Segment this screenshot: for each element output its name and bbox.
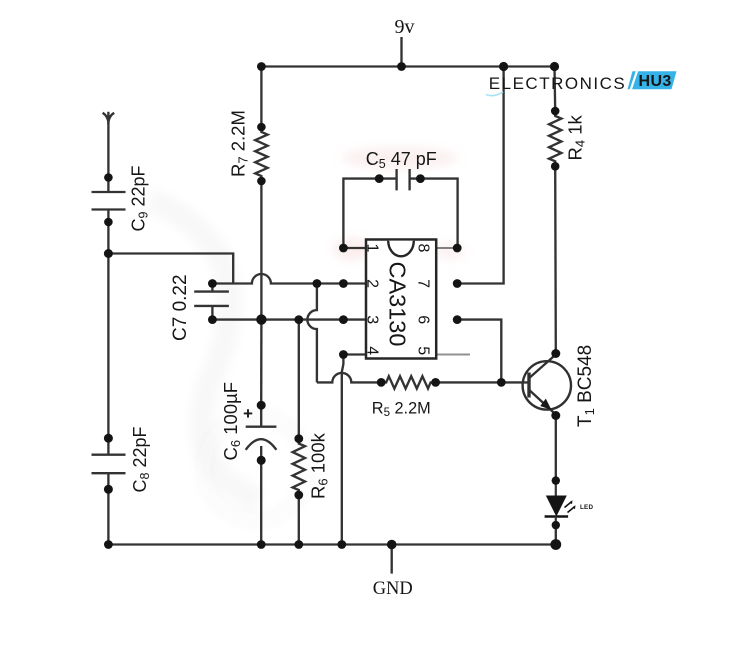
wire R6 branch from pin3 line	[298, 320, 300, 439]
label C6 plus	[244, 409, 252, 417]
wire left column junction A to C8	[107, 254, 109, 439]
capacitor C7	[194, 284, 229, 320]
node rail-GND	[387, 540, 397, 550]
wire pin1 stub	[343, 247, 365, 249]
svg-text:C6 100µF: C6 100µF	[220, 382, 243, 461]
transistor Q1 BC548	[523, 355, 571, 415]
svg-text:R7 2.2M: R7 2.2M	[228, 110, 251, 177]
svg-text:R6 100k: R6 100k	[308, 432, 331, 499]
wire transistor emitter to LED	[555, 416, 557, 481]
svg-text:C8 22pF: C8 22pF	[130, 427, 152, 493]
wire ground rail	[108, 543, 555, 545]
wire 9v stub	[400, 37, 402, 67]
pin8 gray stub	[437, 247, 458, 249]
node pin3-R6	[294, 315, 303, 324]
svg-text:HU3: HU3	[639, 73, 672, 90]
node rail-R7	[257, 62, 266, 71]
wire C9 to junction A	[107, 222, 109, 254]
node C7 top	[208, 279, 217, 288]
node pin2 feedback	[313, 279, 322, 288]
svg-text:4: 4	[364, 346, 381, 355]
svg-text:LED: LED	[580, 504, 593, 511]
node R4 top	[551, 107, 560, 116]
node collector	[551, 349, 560, 358]
node C8 bottom	[104, 485, 113, 494]
svg-text:2: 2	[364, 279, 381, 288]
svg-text:C5 47 pF: C5 47 pF	[366, 149, 437, 171]
node C8 top	[104, 434, 113, 443]
capacitor C8	[92, 438, 126, 489]
svg-text:C9 22pF: C9 22pF	[129, 166, 151, 232]
svg-text:ELECTRONICS: ELECTRONICS	[489, 74, 626, 93]
svg-text:C7 0.22: C7 0.22	[170, 274, 191, 341]
wire antenna to C9	[107, 120, 109, 178]
wire feedback branch pin2 with hop over pin3 line	[307, 284, 317, 383]
pin5 gray stub	[437, 354, 471, 356]
node rail-R4	[550, 62, 559, 71]
svg-text:5: 5	[415, 346, 432, 355]
node pin4	[339, 350, 348, 359]
node rail right end	[550, 539, 561, 550]
wire LED to rail end	[555, 525, 557, 544]
node rail-pin4	[337, 540, 346, 549]
node rail-R6	[294, 540, 303, 549]
svg-text:8: 8	[415, 244, 432, 253]
antenna	[103, 112, 115, 124]
wire feedback branch to R5 with hop over pin4 branch	[317, 373, 381, 383]
node pin2	[339, 279, 348, 288]
node LED top	[552, 476, 560, 484]
wire R6 to ground rail	[298, 495, 300, 545]
node R7 top	[257, 123, 266, 132]
node pin3	[339, 315, 348, 324]
wire C6 to ground rail	[260, 460, 262, 544]
node C5 left	[375, 174, 384, 183]
resistor R7	[255, 127, 267, 181]
wire C5 left leg to pin1	[343, 179, 379, 248]
wire top rail 9v	[261, 65, 554, 67]
wire junction A to pin2 line	[108, 254, 233, 284]
node R7 bottom	[257, 177, 266, 186]
node R4 bottom	[551, 162, 560, 171]
node pin6	[453, 315, 462, 324]
node C9 bottom	[104, 218, 113, 227]
node R6 bottom	[294, 491, 303, 500]
svg-text:9v: 9v	[395, 16, 415, 38]
transistor emitter arrow	[540, 399, 551, 410]
wire R5 to transistor base	[436, 381, 528, 383]
node C6 bottom	[257, 456, 266, 465]
node pin8	[453, 244, 462, 253]
wire pin7 to top rail	[457, 67, 503, 284]
node emitter	[551, 411, 560, 420]
svg-text:CA3130: CA3130	[385, 262, 411, 347]
node rail left	[104, 540, 113, 549]
node LED bottom	[552, 521, 560, 529]
wire pin3 node down to C6	[260, 320, 263, 406]
node rail-C6	[257, 540, 266, 549]
node R6 top	[294, 434, 303, 443]
svg-text:1: 1	[364, 244, 381, 253]
node pin3-R7-C6	[256, 314, 266, 324]
resistor R4	[549, 111, 561, 166]
wire rail to R4	[553, 67, 556, 112]
node R5 left	[377, 378, 386, 387]
wire pin3 line	[212, 318, 365, 320]
op-amp U1 CA3130 body	[366, 240, 436, 359]
svg-text:R4 1k: R4 1k	[565, 114, 588, 160]
wire pin6 to base node	[457, 320, 501, 383]
capacitor C6 plates	[246, 405, 277, 460]
node pin1	[339, 244, 348, 253]
watermark smudges (decor)	[150, 147, 465, 520]
wire pin4 stub	[343, 353, 365, 355]
logo Electronics Hub	[486, 70, 677, 96]
node C7 bottom	[208, 315, 217, 324]
wire C5 right leg to pin8	[420, 179, 457, 248]
node A junction	[104, 249, 113, 258]
svg-text:6: 6	[415, 315, 432, 324]
resistor R5	[381, 376, 435, 388]
node base-pin6	[497, 378, 506, 387]
node rail-9v	[397, 62, 406, 71]
wire GND stub	[391, 545, 393, 574]
node C6 top	[257, 401, 266, 410]
svg-text:R5 2.2M: R5 2.2M	[372, 399, 431, 419]
svg-text:3: 3	[364, 315, 381, 324]
node antenna-C9	[104, 173, 113, 182]
node pin7	[453, 279, 462, 288]
wire R4 to transistor collector	[554, 166, 557, 353]
node rail-pin7	[499, 62, 508, 71]
svg-text:GND: GND	[373, 579, 413, 599]
wire pin2 line with hop over R7 branch	[212, 274, 365, 284]
capacitor C5	[379, 169, 420, 190]
wire C8 to ground rail	[107, 489, 109, 544]
wire R7 bottom to pin3 node	[260, 181, 262, 320]
svg-text:7: 7	[415, 279, 432, 288]
resistor R6	[293, 439, 305, 495]
LED D1	[545, 481, 576, 525]
node C5 right	[416, 174, 425, 183]
wire pin4 branch to ground rail	[342, 355, 344, 545]
capacitor C9	[92, 178, 126, 223]
wire rail to R7 top	[260, 67, 262, 128]
node R5 right	[431, 378, 440, 387]
